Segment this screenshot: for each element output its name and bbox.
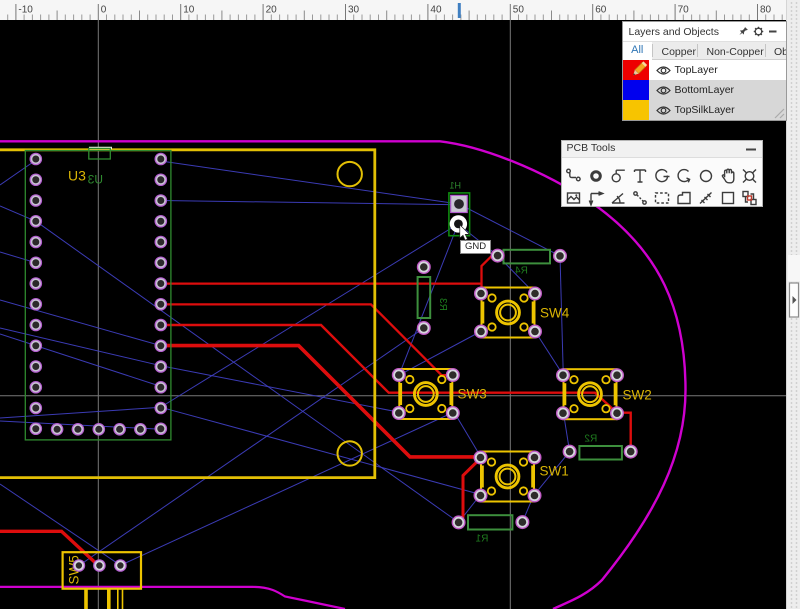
tool icon angle-dimension [612, 193, 625, 203]
U3 pad A4 [30, 216, 41, 227]
grid axis line y [0, 395, 786, 397]
ruler labels [18, 5, 771, 16]
grid axis line x=0 [97, 20, 99, 609]
ruler minor ticks [0, 15, 782, 21]
ratsnest wire H1 pad2 to SW3 pad1 [399, 224, 458, 375]
switch SW3 [393, 369, 460, 420]
ratsnest wire H1 pad1 to R4 pad2 [459, 204, 560, 256]
svg-text:R1: R1 [475, 534, 488, 545]
U3 pad B1 [155, 153, 166, 164]
wire trace U3 to SW1 (thick) [161, 346, 479, 457]
R2 pad 1 [563, 445, 576, 458]
tool icon arc-by-center [678, 169, 690, 182]
mounting hole top silk ring [338, 162, 362, 186]
ratsnest wire U3 pad B1 to H1 pad1 [161, 161, 459, 204]
svg-text:SW1: SW1 [540, 464, 569, 479]
ratsnest wire R2 pad1 to SW1 pad2 [535, 452, 570, 495]
tool icon circle [700, 170, 711, 181]
resistor R4 body [504, 250, 551, 264]
ratsnest wire SW4 pad3 to SW3 pad1 [399, 332, 481, 376]
svg-text:H1: H1 [449, 181, 461, 191]
svg-text:70: 70 [678, 5, 690, 16]
R2 pad 2 [624, 445, 637, 458]
svg-text:80: 80 [760, 5, 772, 16]
tool icon text [634, 170, 645, 182]
switch SW4 [475, 287, 542, 338]
tool icon solid-region [678, 192, 690, 203]
svg-text:20: 20 [266, 5, 278, 16]
ratsnest wire U3 pad B10 to SW3 pad3 [161, 366, 398, 412]
U3 pad B7 [155, 278, 166, 289]
tool icon pad [591, 171, 600, 180]
svg-text:R2: R2 [584, 434, 597, 445]
ratsnest wire off-left to U3 pad B9 [0, 300, 161, 346]
U3 pad A12 [30, 382, 41, 393]
resistor R1 body [468, 515, 512, 529]
tool icon image [567, 193, 579, 203]
R1 pad 2 [516, 516, 529, 529]
U3 pad B2 [155, 174, 166, 185]
U3 pad B6 [155, 257, 166, 268]
U3 pad B10 [155, 340, 166, 351]
ratsnest wire SW3 pad4 to SW1 pad1 [454, 412, 481, 457]
ratsnest wire SW2 pad3 to R2 pad1 [563, 412, 569, 452]
switch SW1 [474, 451, 541, 502]
tool icon via [612, 170, 625, 182]
U3 pad B4 [155, 216, 166, 227]
ratsnest wire U3 pad A4 to R1 pad1 [36, 221, 459, 522]
tool icon dimension [589, 191, 603, 204]
tool icon measure [633, 191, 645, 203]
resistor R2 body [579, 446, 622, 460]
ratsnest wire off-left to U3 pad B13b [0, 407, 161, 418]
svg-text:SW2: SW2 [623, 388, 652, 403]
svg-text:-10: -10 [18, 5, 33, 16]
U3 pad A2 [30, 174, 41, 185]
SW5 pad 2 [94, 560, 105, 571]
highlighted silk segment [89, 147, 112, 149]
U3 pad A9 [30, 319, 41, 330]
ratsnest wire H1 pad2 to R4 pad1 [458, 224, 498, 256]
ruler cursor position marker [458, 3, 461, 18]
wire trace SW1 to R1 [459, 458, 481, 522]
tool icon cutout [700, 192, 712, 203]
resistor R3 body [418, 277, 431, 318]
SW5 pad 1 [73, 560, 84, 571]
ratsnest wire off-left to U3 bottom row [0, 421, 162, 429]
U3 pad C4 [114, 424, 125, 435]
H1 pad 2 (hover highlighted GND) [450, 215, 467, 232]
U3 notch mark [89, 148, 111, 159]
wire trace U3 to SW4/R4 [161, 256, 498, 295]
U3 pad C2 [72, 424, 83, 435]
U3 pad B11 [155, 361, 166, 372]
U3 pad A10 [30, 340, 41, 351]
ratsnest wire off-left to SW5 pad3 [0, 484, 120, 565]
svg-text:R3: R3 [437, 298, 448, 311]
ratsnest wire SW3 pad4 to SW5 pad3 [120, 412, 454, 565]
svg-text:SW4: SW4 [540, 306, 570, 321]
svg-text:50: 50 [513, 5, 525, 16]
SW5 pad 3 [115, 560, 126, 571]
switch SW5 body [63, 552, 141, 589]
ruler background [0, 0, 786, 20]
R3 pad 1 [418, 261, 431, 274]
ratsnest wire off-left to U3 pad A5 [0, 252, 36, 263]
tool icon rect [722, 192, 733, 203]
SW5 pin lines [86, 589, 109, 609]
U3 pad A11 [30, 361, 41, 372]
ratsnest wire H1 pad2 to U3 pad B13 [161, 224, 458, 407]
svg-text:60: 60 [595, 5, 607, 16]
U3 pad B5 [155, 236, 166, 247]
U3 pad A13 [30, 402, 41, 413]
ratsnest wire off-left to U3 pad A3 [0, 206, 36, 221]
tool icon dashed-region [655, 193, 668, 203]
U3 pad B14 [155, 423, 166, 434]
U3 pad A1 [30, 153, 41, 164]
switch SW2 [557, 369, 624, 420]
wire trace U3 to SW3/SW2/R2 [161, 325, 631, 452]
svg-text:R4: R4 [515, 266, 528, 277]
R4 pad 2 [554, 250, 567, 263]
ruler mid ticks [57, 11, 716, 21]
ratsnest wire off-left to U3 pad B10 [0, 328, 161, 366]
svg-text:40: 40 [430, 5, 442, 16]
ratsnest wire off-left to U3 pad B11 [0, 334, 161, 386]
ruler major ticks [16, 4, 758, 20]
U3 pad A7 [30, 278, 41, 289]
U3 pad C5 [135, 424, 146, 435]
ratsnest wire SW1 pad4 to R1 pad2 [522, 495, 534, 523]
svg-text:10: 10 [183, 5, 195, 16]
U3 pad A14 [30, 423, 41, 434]
ratsnest wire R4 pad1 to SW4 pad2 [498, 256, 535, 294]
tool icon canvas-origin [743, 169, 756, 182]
ratsnest wire R3 pad2 to SW5 pad1 [79, 328, 424, 566]
H1 pad 1 (square) [451, 195, 468, 212]
tool icon track [566, 169, 579, 181]
ratsnest wire SW4 pad4 to SW2 pad1 [535, 332, 563, 376]
ratsnest wire U3 pad B3 to H1 pad1 [161, 201, 459, 205]
wire trace U3 to SW3 pad2 [161, 304, 452, 375]
U3 pad B8 [155, 299, 166, 310]
R3 pad 2 [418, 322, 431, 335]
wire trace off-left to SW5 (thick) [0, 531, 99, 566]
U3 pad C3 [93, 424, 104, 435]
tool icon arc [655, 169, 669, 181]
U3 pad A3 [30, 195, 41, 206]
ratsnest wire R4 pad2 to SW2 pad1 [560, 256, 563, 375]
board outline bottom edge [0, 587, 345, 609]
component U3 body outline [25, 151, 171, 440]
mounting hole bottom silk ring [338, 441, 362, 465]
svg-text:SW3: SW3 [458, 387, 487, 402]
R4 pad 1 [491, 249, 504, 262]
svg-text:0: 0 [101, 5, 107, 16]
U3 pad A6 [30, 257, 41, 268]
board outline top edge + right arc [0, 141, 686, 609]
R1 pad 1 [452, 516, 465, 529]
silkscreen board rectangle [0, 150, 375, 478]
tool icon drag [722, 169, 733, 183]
tool icon pad-group [743, 191, 756, 204]
ratsnest wire U3 pad B13 to SW1 pad3 [161, 407, 481, 494]
connector H1 body [449, 193, 470, 236]
U3 pad B13 [155, 402, 166, 413]
U3 pad B3 [155, 195, 166, 206]
ratsnest wire SW1 pad3 to R1 pad1 [459, 495, 481, 523]
U3 pad C1 [51, 424, 62, 435]
U3 pad A5 [30, 236, 41, 247]
U3 pad A8 [30, 299, 41, 310]
grid axis line x=50 [509, 20, 511, 609]
svg-text:30: 30 [348, 5, 360, 16]
svg-text:U3: U3 [68, 168, 86, 184]
svg-text:U3: U3 [87, 172, 103, 186]
U3 pad B9 [155, 319, 166, 330]
ratsnest wire U3 pad A1 to off-left [0, 160, 36, 185]
U3 pad B12 [155, 382, 166, 393]
